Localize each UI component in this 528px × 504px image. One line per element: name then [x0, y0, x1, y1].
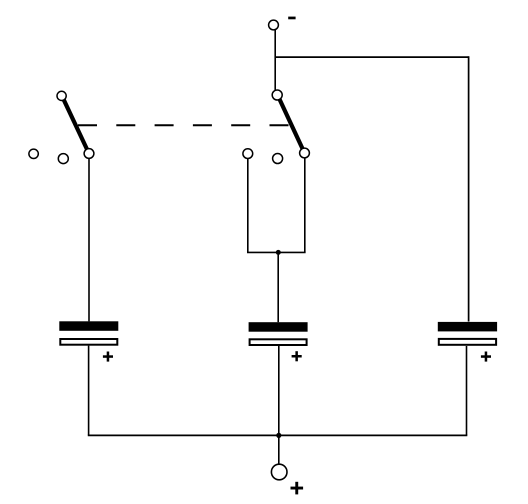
wire : right column down to capacitor C3 [468, 56, 470, 321]
node : junction below right switch [276, 250, 281, 255]
label : plus sign [291, 482, 304, 495]
switch S1b throw contact 2 [273, 154, 283, 164]
capacitor C3 polarity plus [481, 352, 491, 362]
wire : top rail to right column [275, 56, 468, 58]
capacitor C2 (middle) [249, 322, 308, 345]
wire : junction down to capacitor C2 [277, 252, 279, 322]
wire : right switch throw down to join node [304, 158, 306, 253]
terminal : negative (top) [269, 20, 279, 30]
switch S1b pole contact (top) [272, 90, 282, 100]
wire : right switch contact down to join node [247, 158, 249, 252]
switch S1 ganged coupling (dashed line) [78, 124, 289, 126]
wire : capacitor C2 bottom lead [278, 346, 280, 436]
node : bottom junction [276, 433, 281, 438]
switch S1a throw contact 3 (selected) [84, 149, 94, 159]
wire : bottom rail [88, 434, 468, 436]
capacitor C3 (right) [438, 322, 497, 345]
switch S1a throw contact 1 [29, 149, 38, 158]
terminal : positive (bottom) [271, 464, 287, 480]
switch S1b wiper (right section) [279, 98, 303, 150]
wire : left switch throw down to capacitor C1 [88, 158, 90, 321]
switch S1b throw contact 1 [243, 149, 253, 159]
capacitor C2 polarity plus [292, 351, 302, 361]
wire : horizontal join below right switch [247, 251, 306, 253]
switch S1b throw contact 3 (selected) [300, 148, 310, 158]
wire : top terminal down to right switch pole [274, 30, 276, 90]
label : minus sign [288, 17, 295, 20]
switch S1a pole contact (top) [57, 91, 66, 100]
switch S1a throw contact 2 [58, 154, 68, 164]
capacitor C1 (left) [59, 321, 118, 344]
wire : bottom junction to plus terminal [278, 435, 280, 464]
wire : capacitor C1 bottom lead [88, 346, 90, 436]
capacitor C1 polarity plus [103, 352, 113, 362]
switch S1a wiper (left section) [63, 99, 88, 151]
wire : capacitor C3 bottom lead [466, 346, 468, 435]
